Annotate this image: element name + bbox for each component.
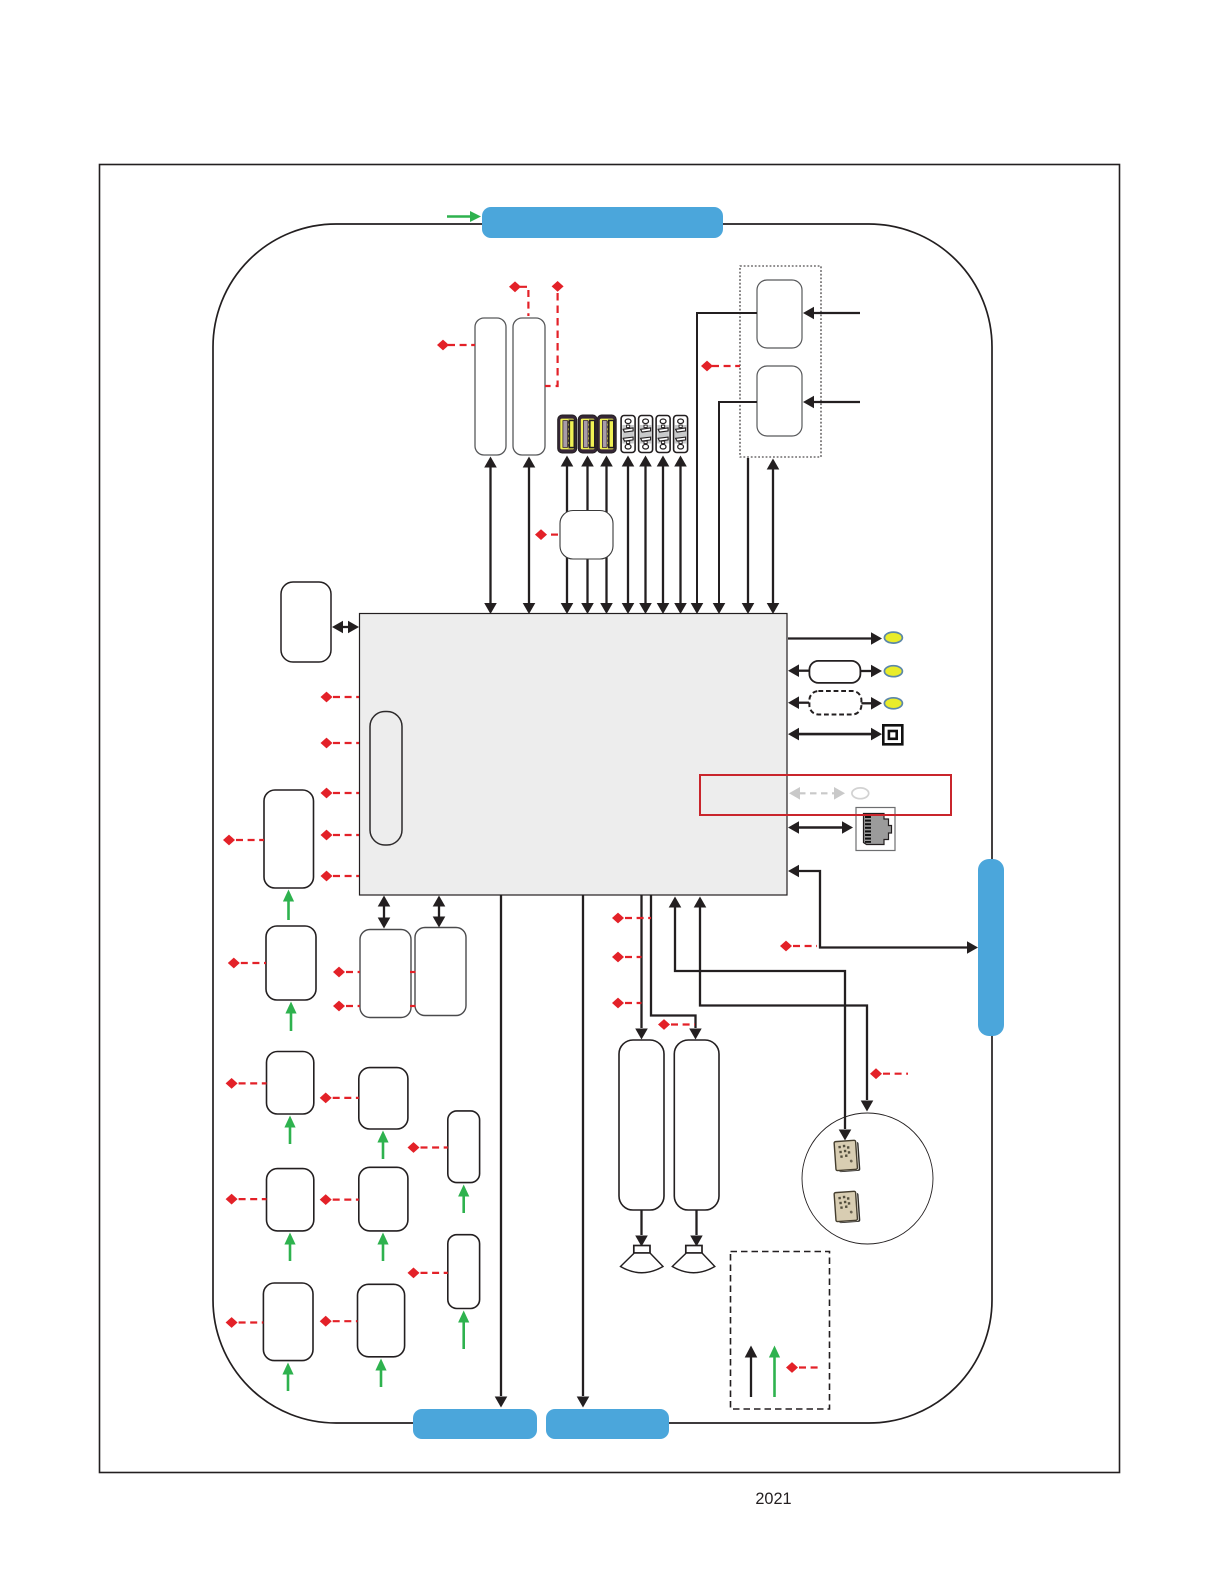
red diamond stub chipset-left 3 <box>321 788 333 799</box>
red diamond stub M4 <box>320 1194 332 1205</box>
wire chipset right-bottom to battery bar <box>788 865 799 878</box>
board connector icon 4 <box>674 416 688 453</box>
wire from dotted container bottom to chipset <box>747 458 749 603</box>
green arrow into L3 <box>289 1127 292 1144</box>
red diamond stub near mic circle <box>870 1068 882 1079</box>
LED driver box <box>809 661 860 683</box>
USB port icon 3 <box>597 415 616 453</box>
red diamond stub M5 <box>320 1316 332 1327</box>
red diamond stub into slot 1 <box>437 340 449 351</box>
wire from module A to chipset <box>697 313 757 603</box>
blue bar: bottom left (keyboard) <box>413 1409 537 1439</box>
red diamond stub chipset-left 1 <box>321 692 333 703</box>
sensor box R3 <box>448 1111 480 1183</box>
red diamond stub DIMM row B <box>333 1001 345 1012</box>
red diamond stub L2 <box>228 958 240 969</box>
double arrow USB port 2 to chipset <box>586 466 588 603</box>
status LED 2 <box>884 666 902 677</box>
red diamond stub chipset-left 5 <box>321 871 333 882</box>
green arrow into M4 <box>382 1244 385 1261</box>
green arrow into R3 <box>462 1196 465 1213</box>
sensor box M5 <box>358 1284 405 1357</box>
USB port icon 2 <box>578 415 597 453</box>
red diamond stub M3 <box>320 1093 332 1104</box>
arrow dashed driver to LED 3 <box>861 702 871 704</box>
red diamond stub audio 1 <box>612 913 624 924</box>
module box A (upper antenna module) <box>757 280 802 348</box>
svg-text:2021: 2021 <box>755 1490 791 1508</box>
speaker 2 <box>686 1246 702 1254</box>
long wire chipset to keyboard bar <box>500 895 502 1396</box>
wire chipset to amp 2 <box>651 895 696 1028</box>
red diamond stub L1 <box>223 835 235 846</box>
green arrow into top blue bar <box>447 215 471 218</box>
blue bar: top (LCD panel) <box>482 207 723 238</box>
red dashed elbow onto slot 2 top <box>509 281 521 292</box>
legend green arrow <box>773 1357 776 1397</box>
double arrow slot2 to chipset <box>528 467 530 603</box>
double arrow connector 2 to chipset <box>644 466 646 603</box>
white gap between bottom blue bars <box>535 1416 548 1430</box>
wire mic 2 to chipset <box>700 907 867 1100</box>
red dashed elbow onto slot 2 right <box>552 281 564 292</box>
module box B (lower antenna module) <box>757 366 802 436</box>
double arrow chipset to RJ45 <box>797 826 842 829</box>
board connector icon 2 <box>639 416 653 453</box>
power button icon (square in square) <box>883 725 902 744</box>
red diamond stub onto battery wire <box>780 941 792 952</box>
left arrowhead row2 into chipset <box>788 664 799 677</box>
status LED 3 <box>884 698 902 709</box>
double arrow EC to chipset <box>341 626 350 628</box>
green arrow into R4 <box>462 1322 465 1349</box>
double arrow connector 1 to chipset <box>627 466 629 603</box>
dashed optional LED driver box <box>809 691 861 715</box>
mic circle <box>802 1113 933 1244</box>
red diamond stub L3 <box>226 1078 238 1089</box>
board connector icon 1 <box>621 416 635 453</box>
wire mic 1 to chipset <box>675 907 845 1129</box>
wire from module B to chipset <box>719 402 757 603</box>
red diamond stub DIMM row A <box>333 967 345 978</box>
red diamond stub audio 2 <box>612 952 624 963</box>
arrow amp1 to speaker 1 <box>640 1210 642 1235</box>
CPU inner rounded box <box>370 712 402 846</box>
laptop chassis outline <box>213 224 992 1423</box>
sensor box L4 <box>267 1169 314 1231</box>
tall box: SSD slot 2 <box>513 318 545 455</box>
double arrow connector 3 to chipset <box>662 466 664 603</box>
double arrow chipset to button <box>797 733 871 736</box>
speaker amp box 1 <box>619 1040 664 1210</box>
left arrowhead row3 into chipset <box>788 696 799 709</box>
left EC box <box>281 582 331 662</box>
DIMM box 2 below chipset <box>415 928 466 1016</box>
red diamond stub chipset-left 4 <box>321 830 333 841</box>
green arrow into M3 <box>382 1142 385 1159</box>
green arrow into L4 <box>289 1244 292 1261</box>
sensor box L5 <box>263 1283 313 1361</box>
double arrow slot1 to chipset <box>489 467 491 603</box>
double arrow dotted container to chipset <box>772 469 774 603</box>
ghost dashed arrow (deleted option) <box>799 792 835 794</box>
arrow chipset to power LED <box>788 637 871 639</box>
tall box: HDD/SSD slot 1 <box>475 318 506 455</box>
legend dashed box <box>731 1252 830 1410</box>
double arrow chipset to DIMM2 <box>438 906 440 917</box>
arrow amp2 to speaker 2 <box>695 1210 697 1235</box>
green arrow into L2 <box>290 1013 293 1031</box>
power LED <box>884 632 902 643</box>
board connector icon 3 <box>656 416 670 453</box>
arrow into module B from right <box>813 401 860 403</box>
red diamond stub R3 <box>408 1142 420 1153</box>
USB port icon 1 <box>558 415 577 453</box>
legend black arrow <box>750 1357 752 1397</box>
red highlight rectangle <box>700 775 951 815</box>
arrow into module A from right <box>813 312 860 314</box>
RJ45 ethernet jack icon <box>856 808 895 851</box>
dotted container (WWAN/WLAN antennas group) <box>740 266 821 457</box>
sensor box R4 <box>448 1235 480 1309</box>
sensor box L2 <box>266 926 316 1000</box>
microphone chip 1 <box>834 1140 860 1172</box>
double arrow USB port 3 to chipset <box>605 466 607 603</box>
double arrow USB port 1 to chipset <box>566 466 568 603</box>
red diamond stub into dotted container <box>701 361 713 372</box>
speaker 1 <box>634 1246 650 1254</box>
double arrow chipset to DIMM1 <box>383 906 385 918</box>
wire chipset to amp 1 <box>640 895 642 1028</box>
DIMM box 1 below chipset <box>360 930 411 1018</box>
microphone chip 2 <box>834 1191 860 1223</box>
page frame border <box>100 165 1120 1473</box>
red diamond stub L4 <box>226 1194 238 1205</box>
green arrow into M5 <box>380 1370 383 1387</box>
red diamond stub audio 3 <box>612 998 624 1009</box>
speaker amp box 2 <box>674 1040 719 1210</box>
arrow driver to LED 2 <box>860 670 871 672</box>
sensor box M3 <box>359 1068 408 1129</box>
blue bar: bottom right (touchpad) <box>546 1409 669 1439</box>
sensor box M4 <box>359 1167 408 1231</box>
sensor box L3 <box>267 1052 314 1115</box>
red diamond stub R4 <box>408 1268 420 1279</box>
red diamond stub amp2 wire <box>658 1019 670 1030</box>
ghost LED ellipse <box>852 788 869 799</box>
red diamond stub into USB hub <box>535 529 547 540</box>
chipset main block <box>360 614 788 896</box>
red diamond stub chipset-left 2 <box>321 738 333 749</box>
blue bar: right side (battery) <box>978 859 1004 1036</box>
green arrow into L1 <box>287 901 290 920</box>
USB hub chip box (overlays usb arrows) <box>560 511 613 560</box>
long wire chipset to touchpad bar <box>582 895 584 1396</box>
sensor box L1 <box>264 790 314 888</box>
red diamond stub L5 <box>226 1317 238 1328</box>
green arrow into L5 <box>287 1374 290 1391</box>
double arrow connector 4 to chipset <box>679 466 681 603</box>
legend red diamond dash <box>786 1362 798 1373</box>
